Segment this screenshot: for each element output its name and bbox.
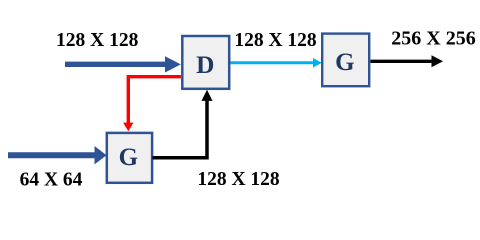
svg-text:G: G <box>119 144 138 171</box>
arrow blue 64x64 input into G1 <box>8 146 107 164</box>
arrow black G2 output 256x256 <box>371 55 444 67</box>
wire black from G1 to D <box>153 101 208 158</box>
arrow blue 128x128 input into D <box>65 56 181 72</box>
block G1 (generator, bottom) <box>107 133 152 183</box>
wire red feedback from D to G1 <box>128 77 181 124</box>
block D (discriminator) <box>182 36 229 89</box>
svg-text:256 X 256: 256 X 256 <box>391 28 475 50</box>
svg-text:64 X 64: 64 X 64 <box>20 170 83 191</box>
svg-text:128 X 128: 128 X 128 <box>234 30 317 51</box>
arrowhead red into G1 top <box>123 123 133 132</box>
arrowhead black into D bottom <box>202 90 213 101</box>
arrow cyan D to G2 <box>231 58 322 68</box>
svg-text:128 X 128: 128 X 128 <box>56 30 139 51</box>
svg-text:D: D <box>196 51 214 79</box>
block G2 (generator, right) <box>322 34 369 87</box>
svg-text:G: G <box>335 49 354 76</box>
svg-text:128 X 128: 128 X 128 <box>197 169 280 190</box>
